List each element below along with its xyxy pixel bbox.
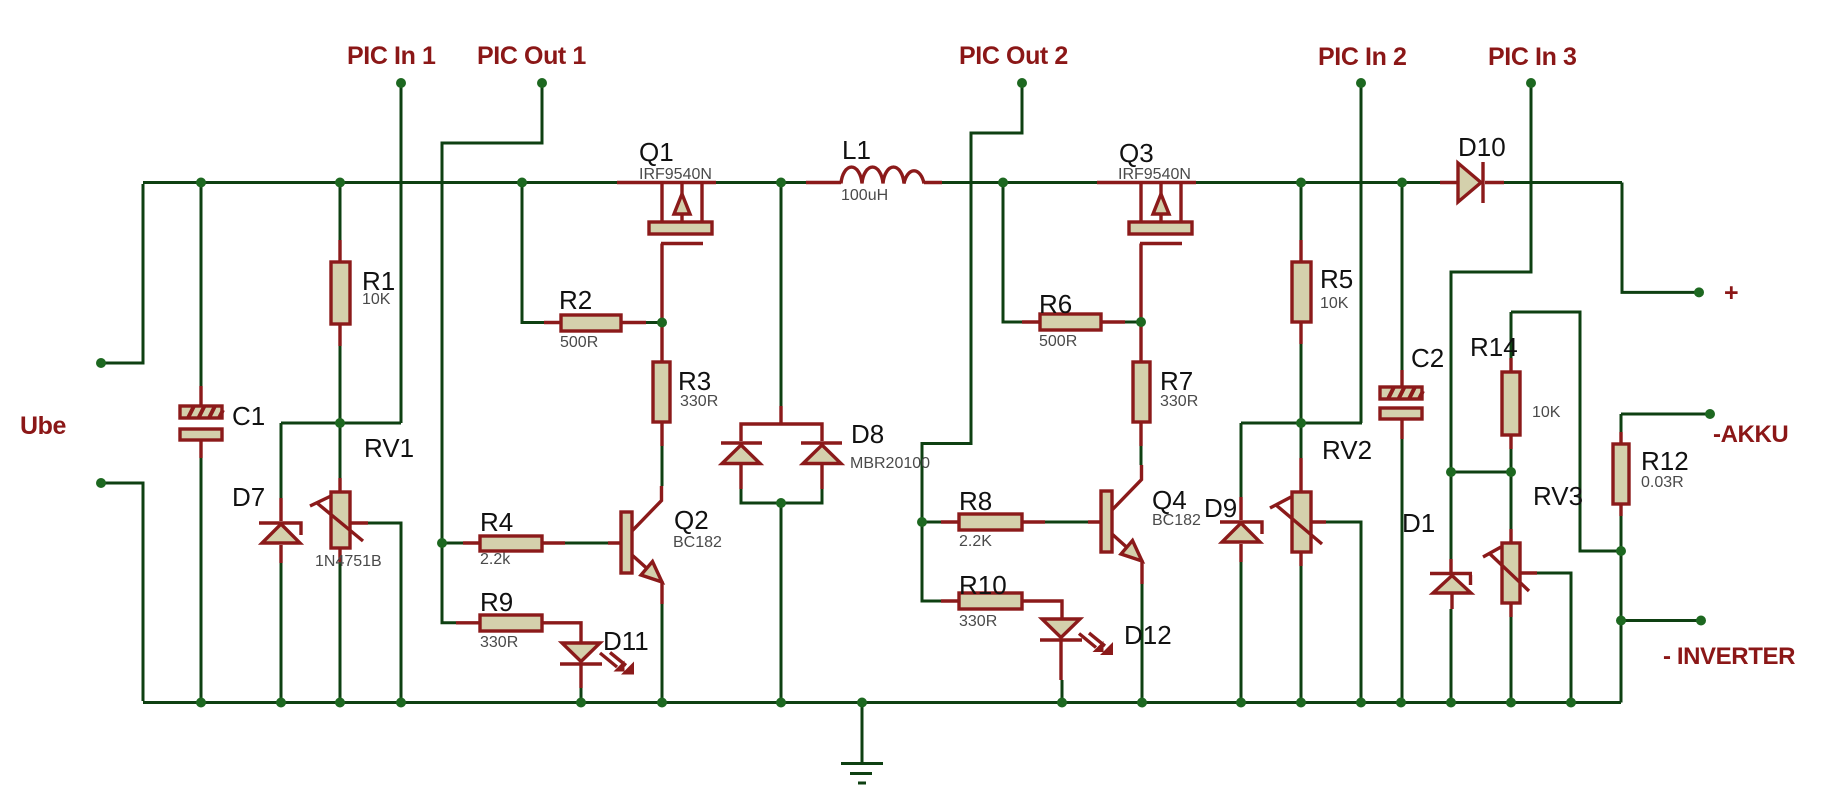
node Ube upper terminal bbox=[96, 358, 106, 368]
svg-text:R12: R12 bbox=[1641, 446, 1689, 476]
svg-text:D10: D10 bbox=[1458, 132, 1506, 162]
node bus C1 bbox=[196, 178, 206, 188]
capacitor C1 bbox=[180, 386, 223, 458]
svg-text:330R: 330R bbox=[680, 393, 718, 410]
node bottom Q4 bbox=[1137, 698, 1147, 708]
svg-text:IRF9540N: IRF9540N bbox=[1118, 166, 1191, 183]
zener diode D9 bbox=[1220, 497, 1262, 562]
svg-text:R7: R7 bbox=[1160, 366, 1193, 396]
trimmer RV3 bbox=[1483, 529, 1537, 617]
svg-text:R4: R4 bbox=[480, 507, 513, 537]
svg-text:PIC In 2: PIC In 2 bbox=[1318, 43, 1407, 71]
resistor R5 bbox=[1292, 240, 1311, 344]
wire RV2 wiper to bottom bbox=[1326, 522, 1361, 701]
svg-text:PIC In 1: PIC In 1 bbox=[347, 42, 436, 70]
svg-text:D1: D1 bbox=[1402, 508, 1435, 538]
node bottom D11 bbox=[576, 698, 586, 708]
svg-text:R2: R2 bbox=[559, 285, 592, 315]
svg-text:L1: L1 bbox=[842, 135, 871, 165]
svg-text:10K: 10K bbox=[1320, 295, 1349, 312]
transistor Q4 bbox=[1088, 465, 1142, 584]
node bottom RV2 wiper bbox=[1356, 698, 1366, 708]
wire R14 column bbox=[1510, 312, 1513, 472]
svg-text:2.2k: 2.2k bbox=[480, 551, 511, 568]
wire PIC Out 2 drop to R8 R10 bbox=[922, 83, 1022, 601]
svg-text:330R: 330R bbox=[1160, 393, 1198, 410]
svg-text:1N4751B: 1N4751B bbox=[315, 553, 382, 570]
node RV1 top junction bbox=[335, 418, 345, 428]
node bottom RV1 wiper bbox=[396, 698, 406, 708]
svg-text:500R: 500R bbox=[560, 334, 598, 351]
svg-text:Q1: Q1 bbox=[639, 137, 674, 167]
node RV2 top junction bbox=[1296, 418, 1306, 428]
zener diode D1 bbox=[1430, 559, 1472, 609]
svg-text:-AKKU: -AKKU bbox=[1713, 421, 1788, 448]
wire left edge Ube feed bbox=[101, 184, 143, 701]
node bus L1 D8 bbox=[776, 178, 786, 188]
svg-text:D7: D7 bbox=[232, 482, 265, 512]
wire Q2 base bbox=[564, 542, 608, 545]
wire node C row D1 RV3 bbox=[1451, 471, 1511, 474]
node bottom D8 bbox=[776, 698, 786, 708]
wire top bus green segments bbox=[143, 181, 1622, 184]
svg-text:R14: R14 bbox=[1470, 332, 1518, 362]
svg-text:R9: R9 bbox=[480, 587, 513, 617]
node R4 junction bbox=[437, 538, 447, 548]
node bus R1 bbox=[335, 178, 345, 188]
node D1 top junction bbox=[1446, 467, 1456, 477]
resistor R3 bbox=[653, 323, 670, 447]
wire INVERTER row bbox=[1621, 619, 1701, 622]
wire RV3 column bbox=[1510, 472, 1513, 701]
wire Q2 emitter to bus bbox=[661, 604, 664, 701]
node R12 mid junction bbox=[1616, 546, 1626, 556]
resistor R12 bbox=[1613, 432, 1629, 516]
resistor R1 bbox=[331, 240, 350, 346]
diode D10 bbox=[1458, 162, 1483, 203]
wire node B row D9 RV2 PICIn2 bbox=[1241, 422, 1362, 425]
resistor R8 bbox=[941, 514, 1045, 530]
wire PIC In 3 drop to D1 junction bbox=[1451, 83, 1531, 559]
svg-text:Q4: Q4 bbox=[1152, 485, 1187, 515]
inductor L1 bbox=[841, 167, 924, 183]
wire D9 column bbox=[1240, 423, 1243, 701]
node bus R6 bbox=[998, 178, 1008, 188]
wire PIC In 1 drop bbox=[400, 83, 403, 423]
LED D11 bbox=[560, 643, 634, 688]
wire C2 column bbox=[1401, 184, 1404, 701]
node PIC Out 1 terminal bbox=[537, 78, 547, 88]
wire R5 RV2 column bbox=[1300, 184, 1303, 701]
svg-text:100uH: 100uH bbox=[841, 187, 888, 204]
resistor R2 bbox=[544, 315, 646, 331]
node plus terminal bbox=[1694, 287, 1704, 297]
wire Q4 emitter to bus bbox=[1141, 584, 1144, 701]
svg-text:BC182: BC182 bbox=[673, 534, 722, 551]
svg-text:R6: R6 bbox=[1039, 289, 1072, 319]
node bus C2 bbox=[1397, 178, 1407, 188]
node bottom D1 bbox=[1446, 698, 1456, 708]
node PIC In 1 terminal bbox=[396, 78, 406, 88]
node bottom C2 bbox=[1396, 698, 1406, 708]
svg-text:D11: D11 bbox=[603, 626, 649, 656]
wire PIC In 2 drop bbox=[1360, 83, 1363, 423]
wire Q4 base bbox=[922, 521, 1088, 524]
svg-text:R3: R3 bbox=[678, 366, 711, 396]
node bottom RV1 bbox=[335, 698, 345, 708]
svg-text:PIC Out 2: PIC Out 2 bbox=[959, 42, 1068, 70]
svg-text:Q3: Q3 bbox=[1119, 138, 1154, 168]
resistor R14 bbox=[1502, 358, 1520, 449]
capacitor C2 bbox=[1380, 370, 1423, 439]
wire C1 column bbox=[200, 184, 203, 701]
trimmer RV2 bbox=[1270, 458, 1326, 566]
svg-text:RV3: RV3 bbox=[1533, 481, 1583, 511]
svg-text:C1: C1 bbox=[232, 401, 265, 431]
node R6 R7 gate junction bbox=[1136, 317, 1146, 327]
svg-text:MBR20100: MBR20100 bbox=[850, 455, 930, 472]
wire PIC Out 1 drop to R4 R9 bbox=[442, 83, 542, 623]
svg-text:PIC In 3: PIC In 3 bbox=[1488, 43, 1577, 71]
resistor R9 bbox=[456, 615, 581, 643]
resistor R10 bbox=[941, 593, 1062, 619]
node PIC In 3 terminal bbox=[1526, 78, 1536, 88]
wire D1 bottom bbox=[1450, 609, 1453, 701]
svg-text:- INVERTER: - INVERTER bbox=[1663, 643, 1795, 670]
svg-text:10K: 10K bbox=[362, 291, 391, 308]
svg-text:R8: R8 bbox=[959, 486, 992, 516]
mosfet Q1 bbox=[649, 184, 712, 323]
svg-text:D8: D8 bbox=[851, 419, 884, 449]
resistor R4 bbox=[463, 536, 565, 551]
LED D12 bbox=[1040, 619, 1113, 680]
node R14 bottom junction bbox=[1506, 467, 1516, 477]
node R12 inverter junction bbox=[1616, 616, 1626, 626]
wire D12 cathode to bus bbox=[1061, 680, 1064, 701]
wire R7 to Q4 collector bbox=[1140, 446, 1143, 465]
node PIC Out 2 terminal bbox=[1017, 78, 1027, 88]
wire D7 column bbox=[280, 423, 283, 701]
ground bbox=[841, 704, 883, 783]
svg-text:0.03R: 0.03R bbox=[1641, 474, 1684, 491]
wire R1 RV1 column bbox=[339, 184, 342, 701]
wire R12 column bbox=[1620, 414, 1623, 703]
node bottom C1 bbox=[196, 698, 206, 708]
svg-text:D12: D12 bbox=[1124, 620, 1172, 650]
wire plus terminal feed bbox=[1622, 183, 1699, 293]
wire R6 column bbox=[1003, 184, 1140, 322]
svg-text:IRF9540N: IRF9540N bbox=[639, 166, 712, 183]
svg-text:R10: R10 bbox=[959, 570, 1007, 600]
svg-text:Q2: Q2 bbox=[674, 505, 709, 535]
svg-text:PIC Out 1: PIC Out 1 bbox=[477, 42, 586, 70]
svg-text:RV1: RV1 bbox=[364, 433, 414, 463]
svg-text:+: + bbox=[1724, 279, 1738, 307]
node D8 bottom junction bbox=[776, 498, 786, 508]
wire bottom bus bbox=[143, 701, 1621, 704]
node bottom RV3 bbox=[1506, 698, 1516, 708]
svg-text:C2: C2 bbox=[1411, 343, 1444, 373]
node PIC In 2 terminal bbox=[1356, 78, 1366, 88]
mosfet Q3 bbox=[1129, 184, 1192, 322]
wire R2 column bbox=[522, 184, 660, 323]
wire top bus red segments near Q1 Q3 L1 D10 bbox=[617, 181, 1504, 184]
node bottom ground bbox=[857, 698, 867, 708]
resistor R7 bbox=[1133, 322, 1150, 446]
wire AKKU row bbox=[1621, 413, 1710, 416]
node bottom Q2 bbox=[657, 698, 667, 708]
transistor Q2 bbox=[608, 486, 662, 604]
wire L1 D8 column bbox=[741, 184, 822, 701]
node R8 junction bbox=[917, 517, 927, 527]
node bottom D12 bbox=[1057, 698, 1067, 708]
node bottom D7 bbox=[276, 698, 286, 708]
zener diode D7 bbox=[259, 498, 301, 563]
node R2 R3 gate junction bbox=[657, 318, 667, 328]
resistor R6 bbox=[1022, 314, 1125, 330]
svg-text:R5: R5 bbox=[1320, 264, 1353, 294]
wire RV3 wiper to bottom bbox=[1537, 573, 1571, 701]
node bus R5 bbox=[1296, 178, 1306, 188]
wire R14 top elbow to R12 mid bbox=[1511, 312, 1621, 551]
svg-text:10K: 10K bbox=[1532, 404, 1561, 421]
node bottom RV2 bbox=[1296, 698, 1306, 708]
svg-text:2.2K: 2.2K bbox=[959, 533, 992, 550]
node INVERTER terminal bbox=[1696, 616, 1706, 626]
svg-text:500R: 500R bbox=[1039, 333, 1077, 350]
node bottom D9 bbox=[1236, 698, 1246, 708]
wire R3 to Q2 collector bbox=[661, 446, 664, 486]
wire R4 left bbox=[442, 542, 463, 545]
svg-text:BC182: BC182 bbox=[1152, 512, 1201, 529]
wire D11 cathode to bus bbox=[580, 688, 583, 701]
node AKKU terminal bbox=[1705, 409, 1715, 419]
trimmer RV1 bbox=[310, 478, 368, 562]
svg-text:330R: 330R bbox=[480, 634, 518, 651]
svg-text:D9: D9 bbox=[1204, 493, 1237, 523]
node bottom RV3 wiper bbox=[1566, 698, 1576, 708]
svg-text:Ube: Ube bbox=[20, 412, 67, 440]
wire node A row D7 RV1 PICIn1 bbox=[281, 422, 401, 425]
node Ube lower terminal bbox=[96, 478, 106, 488]
svg-text:RV2: RV2 bbox=[1322, 435, 1372, 465]
node bus R2 bbox=[517, 178, 527, 188]
wire RV1 wiper to bottom bbox=[368, 523, 401, 701]
dual schottky D8 bbox=[721, 406, 842, 489]
svg-text:330R: 330R bbox=[959, 613, 997, 630]
